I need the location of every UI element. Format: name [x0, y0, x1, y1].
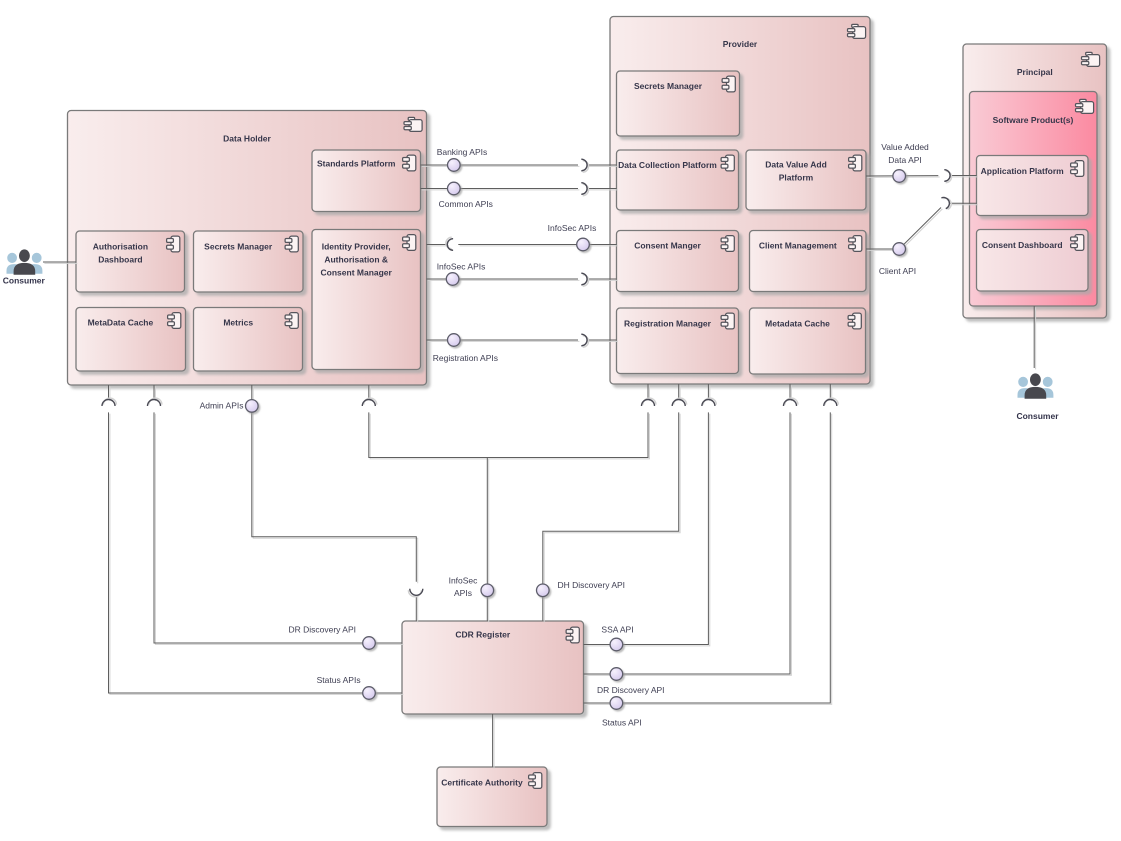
svg-text:Registration Manager: Registration Manager — [624, 319, 712, 329]
interface ball InfoSec APIs (CDR Register top) — [481, 584, 494, 597]
wire Identity Provider to InfoSec APIs socket — [427, 245, 449, 246]
socket S3 below Identity Provider — [362, 398, 376, 406]
wire Consumer to Authorisation Dashboard — [43, 262, 77, 263]
wire Identity Provider to Registration APIs ball — [427, 340, 580, 341]
component Certificate Authority — [437, 767, 547, 827]
wire socket P4 to DR Discovery API ball to CDR Register — [584, 412, 792, 675]
svg-text:Common APIs: Common APIs — [439, 199, 493, 209]
interface ball Client API — [893, 243, 906, 256]
component Identity Provider, Authorisation &amp; Consent Manager — [312, 230, 421, 370]
interface ball Status API (right) — [610, 697, 623, 710]
svg-text:Consent Dashboard: Consent Dashboard — [982, 240, 1063, 250]
svg-text:Metrics: Metrics — [223, 318, 253, 328]
wire Standards Platform to Common APIs ball — [421, 189, 580, 190]
svg-text:CDR Register: CDR Register — [455, 630, 510, 640]
component MetaData Cache (Data Holder) — [76, 308, 186, 372]
svg-text:SSA API: SSA API — [601, 625, 633, 635]
svg-text:Data Value Add: Data Value Add — [765, 160, 827, 170]
wire InfoSec APIs ball to Consent Manger — [458, 245, 618, 246]
socket P4 below Metadata Cache — [784, 398, 798, 406]
svg-text:Consumer: Consumer — [3, 276, 46, 286]
svg-text:Client API: Client API — [879, 266, 916, 276]
component Data Holder (container) — [68, 111, 427, 386]
svg-text:Dashboard: Dashboard — [98, 255, 142, 265]
wire socket P5 to Status API ball to CDR Register — [584, 412, 832, 704]
svg-text:Certificate Authority: Certificate Authority — [441, 778, 523, 788]
component Consent Dashboard — [977, 230, 1089, 292]
svg-text:DR Discovery API: DR Discovery API — [288, 624, 356, 634]
wire Identity Provider stub to socket S3 — [369, 385, 370, 401]
svg-text:Consent Manager: Consent Manager — [321, 268, 393, 278]
interface ball DR Discovery API (left) — [363, 637, 376, 650]
svg-text:Application Platform: Application Platform — [981, 166, 1065, 176]
interface ball Registration APIs — [448, 334, 461, 347]
wire Registration Manager stub to socket P2 — [679, 384, 680, 401]
interface ball InfoSec APIs (near Identity Provider) — [446, 273, 459, 286]
component Data Value Add Platform — [746, 150, 866, 210]
wire Registration APIs socket to Registration Manager — [587, 340, 618, 341]
wire socket S2 to DR Discovery API ball to CDR Register — [154, 412, 403, 644]
svg-text:Data API: Data API — [888, 155, 922, 165]
socket P2 below Registration Manager — [672, 398, 686, 406]
component Secrets Manager (Provider) — [617, 71, 740, 136]
interface ball DR Discovery API (right) — [610, 668, 623, 681]
svg-text:InfoSec APIs: InfoSec APIs — [437, 262, 486, 272]
svg-text:Metadata Cache: Metadata Cache — [765, 319, 830, 329]
wire CDR Register to Certificate Authority — [493, 714, 494, 768]
wire Metadata Cache stub to socket P4 — [790, 384, 791, 401]
wire InfoSec junction to InfoSec APIs ball to CDR Register — [487, 458, 488, 623]
wire Client Management to Client API ball — [866, 249, 901, 250]
svg-text:Value Added: Value Added — [881, 142, 929, 152]
wire Value Added Data API socket to Application Platform — [950, 176, 978, 177]
svg-text:Admin APIs: Admin APIs — [200, 401, 244, 411]
interface ball InfoSec APIs (near Consent Manger) — [577, 238, 590, 251]
svg-text:APIs: APIs — [454, 588, 472, 598]
wire Data Holder stub to Admin APIs ball — [252, 385, 253, 401]
interface ball SSA API — [610, 638, 623, 651]
svg-text:Banking APIs: Banking APIs — [437, 147, 488, 157]
interface ball DH Discovery API — [537, 584, 550, 597]
component Provider (container) — [610, 17, 870, 385]
socket InfoSec APIs (facing left) — [581, 273, 588, 286]
wire socket P2 to DH Discovery API ball to CDR Register — [543, 412, 680, 622]
svg-text:Consent Manger: Consent Manger — [634, 241, 701, 251]
svg-text:Identity Provider,: Identity Provider, — [322, 242, 391, 252]
svg-text:Secrets Manager: Secrets Manager — [204, 242, 273, 252]
svg-text:Authorisation &: Authorisation & — [324, 255, 388, 265]
svg-text:Client Management: Client Management — [759, 241, 837, 251]
svg-text:Status APIs: Status APIs — [317, 675, 361, 685]
socket Value Added Data API — [944, 170, 951, 183]
svg-text:DH Discovery API: DH Discovery API — [558, 580, 626, 590]
svg-text:Status API: Status API — [602, 718, 642, 728]
component Metadata Cache (Provider) — [750, 308, 866, 374]
wire socket S1 to Status APIs ball to CDR Register — [109, 412, 404, 694]
actor Consumer (right) — [1018, 373, 1054, 398]
component Principal (container) — [963, 44, 1107, 318]
wire InfoSec APIs socket to Consent Manger — [587, 279, 618, 280]
socket Admin APIs near CDR Register — [408, 589, 422, 597]
component Data Collection Platform — [617, 150, 739, 210]
wire socket P3 to SSA API ball to CDR Register — [584, 412, 710, 646]
svg-text:Secrets Manager: Secrets Manager — [634, 81, 703, 91]
socket Client API (diagonal) — [941, 195, 953, 210]
svg-text:Standards Platform: Standards Platform — [317, 159, 396, 169]
wire Admin APIs socket to CDR Register — [416, 595, 417, 622]
svg-text:Authorisation: Authorisation — [93, 242, 148, 252]
actor Consumer (left) — [7, 249, 43, 274]
component Client Management — [750, 231, 867, 292]
component Registration Manager — [617, 308, 739, 374]
wire Identity Provider to InfoSec APIs ball — [427, 279, 580, 280]
socket P5 below Metadata Cache — [824, 398, 838, 406]
component Authorisation Dashboard — [76, 231, 185, 292]
svg-text:Registration APIs: Registration APIs — [433, 353, 498, 363]
component Consent Manger — [617, 231, 739, 292]
interface ball Status APIs (left) — [363, 687, 376, 700]
socket Banking APIs — [581, 159, 588, 172]
wire Registration Manager stub to socket P3 — [708, 384, 709, 401]
socket InfoSec APIs (facing right) — [446, 237, 453, 250]
wire Data Value Add Platform to Value Added Data API ball — [866, 176, 940, 178]
component Secrets Manager (Data Holder) — [194, 231, 304, 292]
wire MetaData Cache stub to socket S1 — [109, 385, 110, 401]
socket S1 below MetaData Cache — [102, 398, 116, 406]
socket P1 below Registration Manager — [642, 398, 656, 406]
svg-text:Consumer: Consumer — [1016, 411, 1059, 421]
interface ball Admin APIs — [246, 400, 259, 413]
socket Registration APIs — [581, 334, 588, 347]
svg-text:InfoSec: InfoSec — [449, 576, 479, 586]
interface ball Common APIs — [448, 182, 461, 195]
component Application Platform — [977, 156, 1089, 216]
svg-text:Software Product(s): Software Product(s) — [993, 115, 1074, 125]
component CDR Register — [402, 621, 584, 714]
interface ball Value Added Data API — [893, 170, 906, 183]
wire Client API ball to socket (diagonal) — [899, 208, 942, 251]
socket P3 below Registration Manager — [702, 398, 716, 406]
svg-text:Platform: Platform — [779, 173, 814, 183]
socket Common APIs — [581, 183, 588, 196]
svg-text:MetaData Cache: MetaData Cache — [88, 318, 154, 328]
wire Common APIs socket to Data Collection Platform — [587, 189, 618, 190]
svg-text:Data Collection Platform: Data Collection Platform — [618, 160, 717, 170]
wire Admin APIs ball to socket near CDR Register — [252, 406, 418, 583]
wire Client API socket to Application Platform — [949, 203, 978, 204]
svg-text:Data Holder: Data Holder — [223, 134, 271, 144]
svg-text:Provider: Provider — [723, 39, 758, 49]
wire Standards Platform to Banking APIs ball — [421, 165, 580, 166]
wire socket S3 to InfoSec junction — [369, 412, 650, 459]
svg-text:DR Discovery API: DR Discovery API — [597, 685, 665, 695]
svg-text:InfoSec APIs: InfoSec APIs — [548, 223, 597, 233]
component Standards Platform — [312, 150, 421, 212]
component Software Product(s) — [970, 92, 1098, 307]
wire Banking APIs socket to Data Collection Platform — [587, 165, 618, 166]
wire Registration Manager stub to socket P1 — [648, 384, 649, 401]
wire Metadata Cache stub to socket P5 — [830, 384, 831, 401]
socket S2 below MetaData Cache — [148, 398, 162, 406]
wire Software Product(s) to Consumer — [1034, 306, 1035, 369]
wire MetaData Cache stub to socket S2 — [154, 385, 155, 401]
component Metrics — [194, 308, 303, 372]
svg-text:Principal: Principal — [1017, 67, 1053, 77]
interface ball Banking APIs — [448, 159, 461, 172]
